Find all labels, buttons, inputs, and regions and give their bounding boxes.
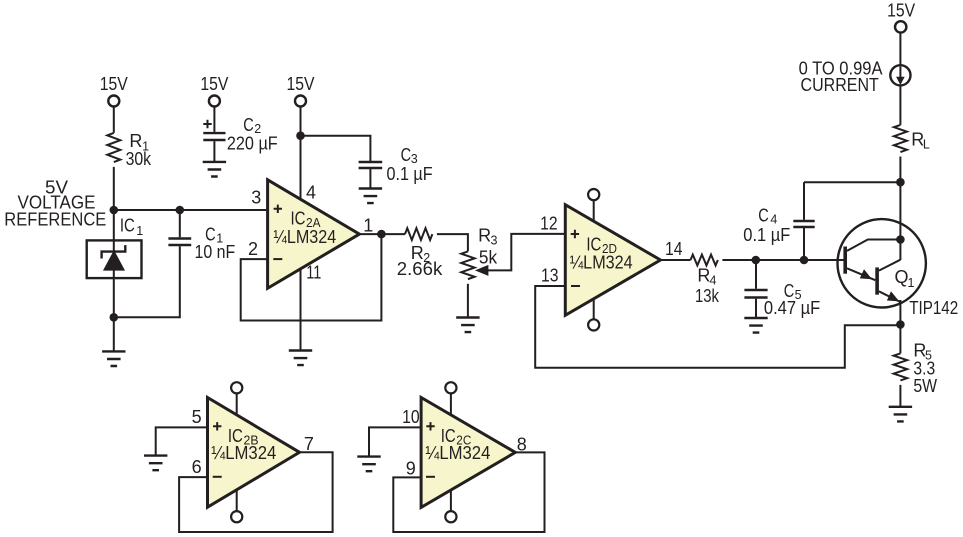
resistor R4 bbox=[691, 255, 720, 306]
svg-text:15V: 15V bbox=[100, 74, 128, 94]
svg-text:2.66k: 2.66k bbox=[397, 259, 444, 279]
svg-text:¼LM324: ¼LM324 bbox=[273, 227, 336, 247]
ground (C2) bbox=[203, 162, 226, 177]
ground (IC2C pin 10) bbox=[357, 457, 380, 472]
wire output pin 14 bbox=[661, 259, 691, 261]
wire bbox=[899, 85, 901, 125]
svg-text:11: 11 bbox=[306, 263, 321, 283]
ground (IC2B pin 5) bbox=[144, 456, 167, 471]
wire bbox=[722, 259, 845, 261]
node 15V terminal (C2 column) bbox=[200, 74, 228, 107]
node junction (pin 4 / C3) bbox=[296, 131, 305, 140]
svg-text:C: C bbox=[243, 115, 254, 135]
pin stub and terminal (IC2D bottom) bbox=[588, 298, 599, 331]
ground (IC2A pin 11) bbox=[289, 351, 312, 366]
current source 0 TO 0.99A bbox=[799, 58, 911, 95]
svg-text:10: 10 bbox=[402, 407, 420, 427]
svg-text:1: 1 bbox=[363, 216, 373, 236]
wire output pin 1 bbox=[359, 233, 405, 235]
capacitor C2 (electrolytic) bbox=[203, 106, 277, 161]
wire pin 9 feedback bbox=[393, 452, 544, 532]
pin stub and terminal (IC2B bottom) bbox=[231, 490, 242, 523]
svg-text:TIP142: TIP142 bbox=[909, 298, 958, 318]
pin stub and terminal (IC2B top) bbox=[231, 382, 242, 415]
node junction (RL / C4 top) bbox=[896, 178, 905, 187]
node junction (C4 bottom) bbox=[800, 256, 809, 265]
svg-text:L: L bbox=[923, 137, 930, 151]
svg-text:R: R bbox=[478, 226, 491, 246]
svg-text:9: 9 bbox=[406, 459, 416, 479]
potentiometer R3 bbox=[461, 226, 565, 280]
svg-text:1: 1 bbox=[136, 224, 143, 238]
wire bbox=[899, 385, 901, 407]
wire bbox=[467, 284, 469, 317]
svg-text:1: 1 bbox=[908, 276, 915, 290]
ground (IC1) bbox=[102, 317, 125, 366]
svg-text:¼LM324: ¼LM324 bbox=[211, 443, 276, 463]
capacitor C1 bbox=[118, 206, 235, 318]
svg-text:6: 6 bbox=[192, 457, 202, 477]
ground (R5) bbox=[889, 407, 912, 422]
capacitor C5 bbox=[744, 260, 820, 318]
wire bbox=[437, 234, 468, 251]
svg-text:4: 4 bbox=[306, 183, 316, 203]
svg-text:Q: Q bbox=[895, 267, 909, 287]
wire bbox=[899, 32, 901, 65]
svg-text:¼LM324: ¼LM324 bbox=[425, 443, 490, 463]
wire pin 10 bbox=[369, 427, 421, 456]
node 15V terminal (top right) bbox=[887, 0, 915, 32]
svg-text:0.1 µF: 0.1 µF bbox=[387, 164, 433, 184]
node junction (pin 1) bbox=[377, 230, 386, 239]
svg-text:30k: 30k bbox=[126, 149, 152, 169]
node A (5V reference) bbox=[110, 206, 119, 215]
svg-text:0.1 µF: 0.1 µF bbox=[743, 225, 790, 245]
svg-text:R: R bbox=[129, 131, 142, 151]
wire pin 13 feedback bbox=[535, 286, 900, 368]
wire bbox=[301, 136, 371, 161]
node label 5V VOLTAGE REFERENCE bbox=[4, 177, 106, 229]
svg-text:IC: IC bbox=[586, 235, 601, 255]
node junction (IC1 bottom) bbox=[110, 313, 119, 322]
wire pin 6 feedback bbox=[179, 452, 333, 532]
node junction (R4 / C5) bbox=[752, 256, 761, 265]
op-amp IC2B bbox=[192, 398, 314, 508]
node 15V terminal (R1 column) bbox=[100, 74, 128, 107]
wire pin 5 bbox=[156, 427, 208, 455]
ground (R3) bbox=[456, 318, 479, 333]
svg-text:C: C bbox=[401, 145, 412, 165]
svg-text:IC: IC bbox=[120, 215, 135, 235]
voltage reference IC1 (zener diode in box) bbox=[87, 215, 144, 278]
transistor Q1 (TIP142 darlington) bbox=[838, 219, 959, 324]
svg-text:5k: 5k bbox=[479, 248, 498, 268]
svg-text:C: C bbox=[758, 206, 769, 226]
node 15V terminal (IC2A pin 4) bbox=[287, 74, 315, 107]
resistor R2 bbox=[397, 228, 444, 279]
svg-text:3: 3 bbox=[491, 234, 498, 248]
wire bbox=[899, 157, 901, 261]
svg-text:13k: 13k bbox=[695, 286, 720, 306]
wire bbox=[114, 209, 268, 211]
wire bbox=[113, 167, 115, 317]
svg-text:10 nF: 10 nF bbox=[195, 242, 236, 262]
svg-text:5W: 5W bbox=[913, 376, 937, 396]
wire pin 2 feedback bbox=[241, 234, 382, 320]
wire bbox=[300, 106, 302, 135]
svg-text:15V: 15V bbox=[887, 0, 915, 20]
svg-text:CURRENT: CURRENT bbox=[801, 75, 879, 95]
svg-text:IC: IC bbox=[291, 208, 306, 228]
svg-text:2: 2 bbox=[248, 239, 258, 259]
svg-text:7: 7 bbox=[304, 434, 314, 454]
svg-text:5: 5 bbox=[192, 407, 202, 427]
resistor R1 bbox=[107, 131, 152, 169]
pin stub and terminal (IC2C top) bbox=[445, 382, 456, 415]
capacitor C3 bbox=[359, 145, 433, 188]
svg-text:0.47 µF: 0.47 µF bbox=[764, 298, 820, 318]
node junction (Q1 emitter / R5) bbox=[896, 320, 905, 329]
svg-text:15V: 15V bbox=[287, 74, 315, 94]
ground (C3) bbox=[359, 189, 382, 204]
op-amp IC2A bbox=[248, 180, 373, 288]
resistor RL bbox=[894, 125, 930, 152]
wire pin 4 bbox=[300, 136, 302, 201]
wire bbox=[804, 181, 900, 183]
svg-text:13: 13 bbox=[541, 266, 559, 286]
op-amp IC2C bbox=[402, 398, 527, 508]
capacitor C4 bbox=[743, 182, 814, 260]
op-amp IC2D bbox=[540, 205, 682, 316]
svg-text:¼LM324: ¼LM324 bbox=[570, 253, 633, 273]
svg-text:12: 12 bbox=[540, 214, 558, 234]
svg-text:R: R bbox=[697, 266, 710, 286]
ground (C5) bbox=[744, 318, 767, 333]
svg-text:14: 14 bbox=[665, 239, 683, 259]
svg-text:220 µF: 220 µF bbox=[227, 133, 278, 153]
svg-text:REFERENCE: REFERENCE bbox=[4, 210, 106, 230]
svg-text:3: 3 bbox=[251, 188, 261, 208]
pin stub and terminal (IC2C bottom) bbox=[445, 490, 456, 523]
resistor R5 bbox=[894, 341, 937, 397]
wire bbox=[899, 325, 901, 354]
svg-text:15V: 15V bbox=[200, 74, 228, 94]
wire pin 11 bbox=[300, 268, 302, 350]
wire bbox=[113, 106, 115, 132]
pin stub and terminal (IC2D top) bbox=[588, 189, 599, 222]
